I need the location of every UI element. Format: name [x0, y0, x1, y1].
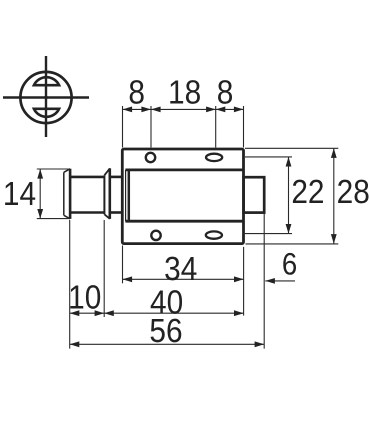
svg-text:8: 8 — [217, 74, 234, 111]
svg-text:10: 10 — [68, 279, 101, 316]
svg-text:8: 8 — [128, 74, 145, 111]
svg-text:28: 28 — [337, 174, 370, 211]
svg-text:18: 18 — [168, 74, 201, 111]
svg-text:34: 34 — [164, 251, 197, 288]
svg-text:6: 6 — [282, 246, 297, 281]
svg-text:56: 56 — [149, 313, 182, 350]
svg-text:22: 22 — [291, 174, 324, 211]
svg-text:14: 14 — [3, 176, 36, 213]
